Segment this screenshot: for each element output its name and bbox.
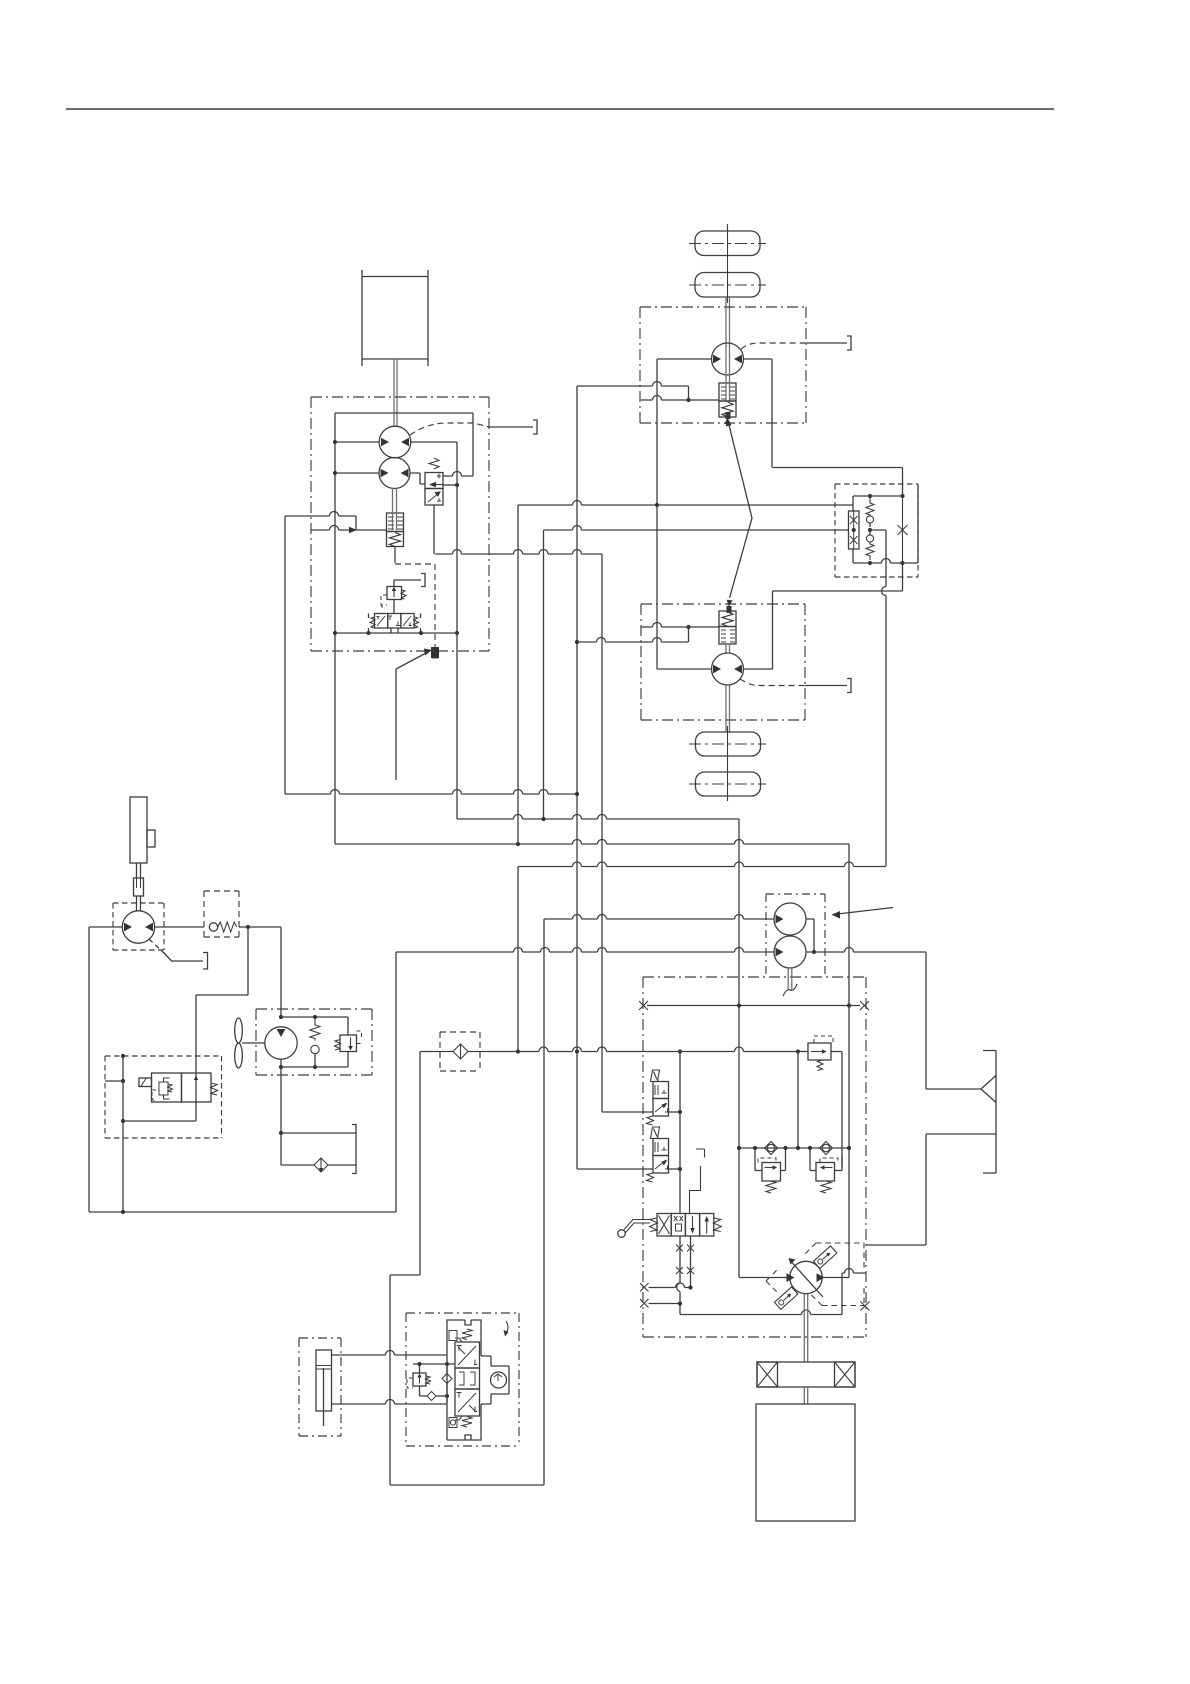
gear pump G1 bbox=[774, 903, 806, 935]
PV2 spring bbox=[647, 1173, 654, 1182]
rear axle enclosure (dash-dot) bbox=[641, 604, 805, 720]
wire row591 link bbox=[902, 563, 904, 591]
LV cell4 up arrow bbox=[706, 1218, 708, 1234]
LV springs bbox=[650, 1218, 658, 1232]
check valve SD2 bbox=[427, 1392, 436, 1401]
arrow on pilot row530 bbox=[349, 527, 357, 534]
wire V3 top to plug bbox=[394, 580, 421, 587]
LV cell2 marks bbox=[674, 1216, 683, 1231]
wire riser x457 lower bbox=[456, 485, 458, 819]
wire relief top row496 bbox=[853, 496, 903, 511]
front tire T1 bbox=[695, 231, 760, 256]
transfer gearbox TG bbox=[756, 1404, 855, 1521]
check-relief upper (spring+ball) bbox=[866, 496, 874, 516]
wire P2 right to valve V1 bbox=[410, 473, 425, 484]
valve V1 top cell arrow bbox=[431, 484, 443, 486]
flushing shuttle FS (double orifice) bbox=[849, 511, 860, 549]
wire HP drain to plug bbox=[164, 953, 203, 961]
M2 case drain dashed bbox=[740, 679, 805, 686]
V2 spring box bbox=[387, 532, 404, 547]
AP servo piston lower bbox=[774, 1287, 797, 1309]
wire trunk row530 bbox=[544, 526, 849, 531]
hand pump HP bbox=[122, 911, 154, 943]
wire M1 right to relief block row468 bbox=[772, 468, 903, 497]
wire filter to tank bbox=[328, 1164, 356, 1166]
pump assembly enclosure (dash-dot) bbox=[311, 397, 489, 651]
wire cylinder row1355 bbox=[332, 1351, 448, 1356]
wire trunk row794 bbox=[285, 790, 577, 795]
annotation arrow bbox=[833, 908, 893, 915]
outer steering loop wire bbox=[390, 1275, 544, 1485]
wire PV2 out bbox=[669, 1168, 681, 1170]
wire cylinder row1404 bbox=[332, 1400, 448, 1405]
wire CV1 to fan feed bbox=[248, 927, 281, 1017]
wire trunk row844 bbox=[335, 840, 849, 845]
node PV1 out tap bbox=[678, 1110, 682, 1114]
wire riser x518 upper bbox=[517, 505, 519, 844]
hand pump lever bbox=[130, 797, 147, 863]
steering control valve cells bbox=[455, 1342, 480, 1368]
AP variable arrow bbox=[792, 1262, 824, 1297]
wire P1 left bbox=[335, 441, 379, 443]
steering valve casing bbox=[447, 1320, 481, 1440]
fan motor FM bbox=[265, 1027, 297, 1059]
wire AP right port bbox=[823, 1277, 850, 1279]
plugged test port X left bbox=[639, 1001, 648, 1010]
wire pilot branch bbox=[196, 927, 248, 1073]
x-port row1287 bbox=[640, 1283, 649, 1292]
V4 port stubs bbox=[369, 614, 421, 634]
tank bracket TK1 bbox=[352, 1125, 356, 1174]
V3 dashed pilot box bbox=[381, 595, 387, 605]
suction filter F2 enclosure (dashed) bbox=[440, 1032, 480, 1071]
wire row1287 bbox=[649, 1283, 691, 1288]
wire port to plug row427 bbox=[489, 426, 533, 428]
wire riser x602 bbox=[601, 554, 603, 1112]
wire pilot line from V2 left (row530) bbox=[311, 526, 387, 531]
SV right spring bbox=[211, 1083, 218, 1095]
wire M1 drain port bbox=[806, 342, 847, 344]
SV solenoid tab bbox=[139, 1078, 152, 1087]
gear pump enclosure (dashed) bbox=[766, 894, 825, 977]
plug bracket B2 bbox=[847, 336, 851, 350]
wire LV drops bbox=[677, 1236, 691, 1310]
node row1212 tap bbox=[121, 1210, 125, 1214]
node row1051 taps bbox=[516, 1049, 520, 1053]
node G2 out bbox=[812, 950, 816, 954]
wire bottom row1212 bbox=[89, 1211, 396, 1213]
wire PV1 out bbox=[669, 1111, 681, 1113]
wire trunk row867 bbox=[518, 862, 886, 867]
steering cylinder CYL bbox=[316, 1350, 332, 1411]
suction line row1089 bbox=[926, 1088, 981, 1090]
steering relief valve RV3 bbox=[413, 1373, 426, 1386]
FM check relief (spring+ball) bbox=[310, 1017, 320, 1041]
node enclosure top tap bbox=[121, 1054, 125, 1058]
front axle centerline bbox=[727, 224, 729, 303]
wire AP shaft bbox=[804, 1294, 807, 1363]
node P2 left port bbox=[333, 471, 337, 475]
wire fan shaft bbox=[242, 1042, 265, 1044]
wire V1 top right port with jump bbox=[443, 472, 473, 477]
wire riser x849 bbox=[848, 844, 850, 1278]
steering valve top spring bbox=[455, 1329, 472, 1342]
wire return row1133 to tank bbox=[281, 1132, 356, 1134]
node row1148 junctions bbox=[737, 1146, 741, 1150]
node row1051 branch bbox=[678, 1049, 682, 1053]
wire case drain row1314 bbox=[680, 1269, 866, 1315]
node FM branch bbox=[313, 1015, 317, 1019]
rear tire T3 bbox=[696, 732, 761, 756]
wire row1051 inside box bbox=[643, 1047, 798, 1052]
PV2 solenoid tab bbox=[651, 1127, 660, 1139]
valve V4 (3-pos charge valve) bbox=[375, 614, 388, 629]
wire RV1 drain bbox=[347, 1052, 349, 1068]
node row505 motor branch bbox=[655, 503, 659, 507]
AP servo piston upper bbox=[813, 1246, 836, 1268]
wire V2 bottom drain bbox=[394, 547, 396, 564]
node V1 right port on drain bbox=[455, 483, 459, 487]
manual override arrow bbox=[396, 652, 428, 780]
check-relief lower (ball+spring) bbox=[869, 530, 871, 535]
pump case loop wire bbox=[335, 413, 473, 844]
wire filter row1051 left bbox=[420, 1052, 453, 1276]
wire V1 bottom port bbox=[433, 505, 435, 554]
wire riser x518 lower bbox=[517, 867, 519, 1052]
wire riser x123 bbox=[122, 1056, 124, 1212]
SEC2 bbox=[577, 224, 851, 613]
M1 case drain dashed bbox=[741, 343, 806, 349]
node row794 end tap bbox=[575, 792, 579, 796]
node x577 row642 tap bbox=[575, 640, 579, 644]
wire trunk row554 bbox=[435, 550, 602, 555]
wire trunk row505 bbox=[518, 501, 853, 506]
reservoir symbol TKR bbox=[983, 1051, 996, 1174]
wire P1 right to vertical bbox=[411, 442, 457, 485]
wire M1 right port bbox=[744, 359, 773, 467]
wire feed row516 bbox=[285, 512, 356, 531]
node relief branch bbox=[796, 1049, 800, 1053]
wire HP right bbox=[155, 926, 204, 928]
V2 pump shaft bbox=[393, 488, 397, 530]
wire M2 right port bbox=[744, 591, 903, 669]
wire tank return row1245 bbox=[866, 1244, 926, 1246]
pump P2 (lower traction pump) bbox=[379, 458, 410, 489]
gear pump G2 bbox=[774, 936, 806, 968]
plug bracket B4 bbox=[203, 953, 208, 970]
wire M1 left port bbox=[657, 359, 712, 504]
node row819 x543 tap bbox=[541, 817, 545, 821]
node row1005 taps bbox=[737, 1003, 741, 1007]
fan motor enclosure (dash-dot) bbox=[256, 1009, 372, 1075]
node shuttle mid port bbox=[852, 528, 856, 532]
pilot valve PV2 (solenoid) bbox=[653, 1139, 669, 1156]
node row844 x518 tap bbox=[516, 842, 520, 846]
wire drop to row1165 bbox=[281, 1133, 314, 1165]
wire trunk row919 bbox=[544, 915, 775, 920]
wire V6 pilot row627 bbox=[641, 623, 719, 628]
wire trunk row819 bbox=[457, 815, 739, 820]
return line row1134 bbox=[926, 1134, 996, 1245]
node relief bottom junctions bbox=[868, 561, 872, 565]
steering cylinder enclosure (dashed) bbox=[299, 1338, 341, 1436]
engine output shaft bbox=[394, 359, 397, 427]
wire relief bottom row563 bbox=[853, 485, 918, 563]
axial piston pump AP bbox=[790, 1261, 822, 1293]
check valve CV1 enclosure (dashed) bbox=[204, 891, 239, 937]
wire FM top row1017 bbox=[281, 1017, 348, 1035]
wire pump servo dashed to port bbox=[410, 423, 489, 435]
V5 spring box bbox=[719, 401, 736, 417]
wire check row1148 bbox=[739, 1147, 849, 1149]
V4 cell details bbox=[377, 616, 412, 626]
rear motor M2 bbox=[712, 653, 744, 685]
check valve SD1 bbox=[442, 1374, 452, 1384]
steering unit enclosure (dashed) bbox=[406, 1313, 519, 1446]
AP control dashed envelope bbox=[766, 1243, 864, 1306]
wire riser x543 upper bbox=[543, 530, 545, 819]
SV internal reducer bbox=[159, 1082, 168, 1095]
check valve CD1 bbox=[765, 1142, 778, 1155]
V4 right spring bbox=[414, 617, 419, 628]
wire M2 left port bbox=[657, 504, 712, 669]
wire trunk row952 bbox=[396, 948, 775, 953]
V6 body bbox=[719, 627, 736, 645]
servo reducing valve SR1 bbox=[755, 1148, 786, 1171]
solenoid valve SV body bbox=[152, 1073, 182, 1102]
wire V5 feed P bbox=[577, 382, 689, 401]
plug bracket B1 bbox=[533, 420, 537, 434]
wire P2 left bbox=[335, 472, 379, 474]
wire filter row1051 right bbox=[468, 1047, 643, 1052]
PV1 spring bbox=[647, 1116, 654, 1125]
wire FM bottom row1067 bbox=[281, 1059, 348, 1067]
wire gauge row1005 bbox=[647, 1005, 860, 1007]
node PV2 out tap bbox=[678, 1167, 682, 1171]
x-mark ports under LV bbox=[676, 1245, 694, 1275]
node CV1 out bbox=[246, 925, 250, 929]
wire riser x739 bbox=[738, 819, 740, 1278]
wire steering return riser x396 bbox=[395, 952, 397, 1212]
mechanical linkage arrows between motor controls bbox=[729, 425, 752, 598]
gerotor rotation arrow bbox=[506, 1321, 508, 1334]
fan symbol bbox=[235, 1018, 243, 1043]
node row1303 end bbox=[678, 1301, 682, 1305]
gerotor metering unit GM bbox=[481, 1356, 509, 1404]
wire RV2 pilot drop bbox=[797, 1052, 799, 1149]
node return tee bbox=[279, 1131, 283, 1135]
proportional control valve V2 body bbox=[387, 513, 404, 532]
valve V1 spring bbox=[429, 458, 439, 469]
valve V1 (2-pos control) bbox=[425, 473, 443, 489]
steering valve bottom spring bbox=[455, 1416, 472, 1427]
node V6 pilot junction bbox=[686, 625, 690, 629]
front tire T2 bbox=[695, 273, 760, 298]
plug bracket B3 bbox=[847, 679, 851, 693]
wire V3 to V4 bbox=[393, 600, 395, 614]
HP drain dashed diagonal bbox=[149, 939, 166, 955]
node V5 pilot junction bbox=[686, 398, 690, 402]
wire left drop x285 bbox=[284, 516, 286, 794]
engine box E1 bbox=[362, 270, 428, 366]
wire row633 bbox=[335, 632, 457, 634]
wire riser x577 bbox=[576, 386, 578, 1169]
main control enclosure (dash-dot) bbox=[643, 977, 866, 1337]
wire steering relief taps bbox=[413, 1364, 455, 1396]
plugged port bracket bbox=[421, 574, 425, 587]
mode selector component MS bbox=[431, 647, 439, 658]
wire SV drain row1121 bbox=[123, 1102, 196, 1121]
rear tire T4 bbox=[696, 772, 761, 796]
wire mid to right drop bbox=[870, 530, 886, 866]
node x123 taps bbox=[121, 1079, 125, 1083]
orifice X on vertical 902 bbox=[898, 496, 908, 563]
suction strainer triangle bbox=[981, 1076, 996, 1103]
node mid column junction bbox=[868, 528, 872, 532]
front axle enclosure (dash-dot) bbox=[640, 307, 806, 423]
pilot dashed link to mode selector bbox=[395, 564, 435, 646]
wire left loop x89 bbox=[88, 927, 90, 1212]
transfer coupling CPL bbox=[757, 1362, 855, 1387]
solenoid cut-off enclosure (dashed) bbox=[105, 1056, 222, 1138]
node FM bottom junctions bbox=[279, 1065, 283, 1069]
wire V6 feed row642 bbox=[577, 627, 689, 642]
FM relief valve RV1 bbox=[340, 1035, 357, 1052]
wire M2 drain port bbox=[805, 685, 847, 687]
node row1287 end bbox=[688, 1285, 692, 1289]
LV pilot plug staircase bbox=[690, 1149, 705, 1214]
pilot relief valve V3 bbox=[387, 587, 402, 600]
V4 left spring bbox=[370, 617, 375, 628]
wire FM return drop bbox=[280, 1067, 282, 1133]
wire RV2 out bbox=[831, 1052, 842, 1168]
LV lever handle bbox=[624, 1220, 650, 1234]
plugged test port X right bbox=[860, 1001, 869, 1010]
gear pump drive shaft bbox=[788, 968, 792, 990]
wire SV pilot x196 bbox=[195, 1073, 197, 1102]
wire riser x545 (steering feed) bbox=[543, 919, 545, 1485]
wire G2 out to tank drop bbox=[806, 948, 926, 1090]
M2 displacement valve V6 spring box bbox=[719, 611, 736, 627]
wire PV2 feed row1169 bbox=[577, 1168, 653, 1170]
wire pilot riser x680 bbox=[679, 1052, 681, 1214]
x-port row1303 bbox=[640, 1299, 649, 1308]
V5 bottom arrow bbox=[725, 418, 731, 425]
manual lever valve LV bbox=[657, 1214, 671, 1237]
wire G1 out bbox=[806, 919, 814, 952]
wire port row1081 bbox=[105, 1080, 123, 1082]
crossover relief enclosure (dashed) bbox=[835, 484, 918, 577]
charge relief valve RV2 bbox=[808, 1043, 831, 1060]
check valve CD2 bbox=[820, 1142, 833, 1155]
suction filter F2 bbox=[453, 1044, 468, 1059]
V3 spring right bbox=[401, 590, 406, 599]
rear axle shaft bbox=[726, 685, 730, 732]
valve V1 bottom cell arrow bbox=[428, 492, 440, 502]
node V4 drain junctions bbox=[333, 631, 337, 635]
page rule bbox=[66, 108, 1054, 110]
M1 displacement valve V5 bbox=[719, 383, 736, 401]
LV cell3 down arrow bbox=[692, 1216, 694, 1232]
wire PV1 feed row1112 bbox=[602, 1111, 653, 1113]
node relief top junction bbox=[900, 494, 904, 498]
node P1 left port bbox=[333, 440, 337, 444]
wire V5 pilot row400 bbox=[641, 396, 719, 400]
pilot valve PV1 (solenoid) bbox=[653, 1082, 669, 1099]
front motor M1 bbox=[712, 343, 744, 375]
node FM top bbox=[279, 1015, 283, 1019]
hand pump enclosure (dashed) bbox=[113, 903, 164, 950]
wire AP left port bbox=[739, 1277, 790, 1279]
return filter F1 bbox=[314, 1158, 328, 1172]
rear axle centerline bbox=[727, 726, 729, 801]
pump P1 (upper traction pump) bbox=[379, 426, 411, 458]
servo reducing valve SR2 bbox=[810, 1148, 842, 1171]
front axle shaft bbox=[726, 297, 730, 344]
wire HP left bbox=[89, 926, 122, 928]
LV cell1 X bbox=[659, 1216, 670, 1235]
check valve CV1 bbox=[209, 923, 217, 931]
x-port on envelope bbox=[861, 1302, 870, 1311]
coupling shaft bbox=[804, 1387, 807, 1404]
wire row1303 bbox=[649, 1303, 681, 1305]
PV1 solenoid tab bbox=[651, 1070, 660, 1082]
